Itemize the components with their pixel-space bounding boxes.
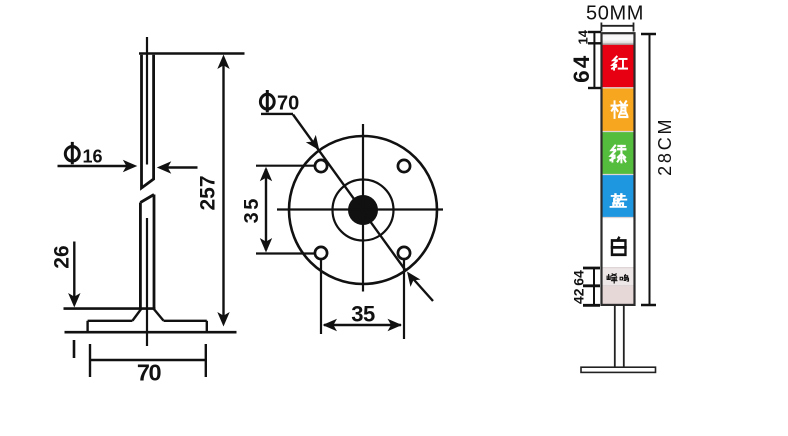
svg-text:28CM: 28CM xyxy=(655,117,675,176)
svg-text:26: 26 xyxy=(51,245,74,268)
svg-text:70: 70 xyxy=(277,93,299,115)
svg-text:257: 257 xyxy=(196,175,219,210)
svg-text:42: 42 xyxy=(571,288,587,304)
svg-text:64: 64 xyxy=(571,270,587,286)
svg-text:50MM: 50MM xyxy=(586,2,644,24)
svg-text:14: 14 xyxy=(576,29,591,44)
svg-text:35: 35 xyxy=(241,196,263,223)
svg-text:16: 16 xyxy=(83,147,103,167)
svg-text:64: 64 xyxy=(569,54,594,83)
svg-text:35: 35 xyxy=(351,302,375,327)
svg-text:70: 70 xyxy=(137,360,162,386)
